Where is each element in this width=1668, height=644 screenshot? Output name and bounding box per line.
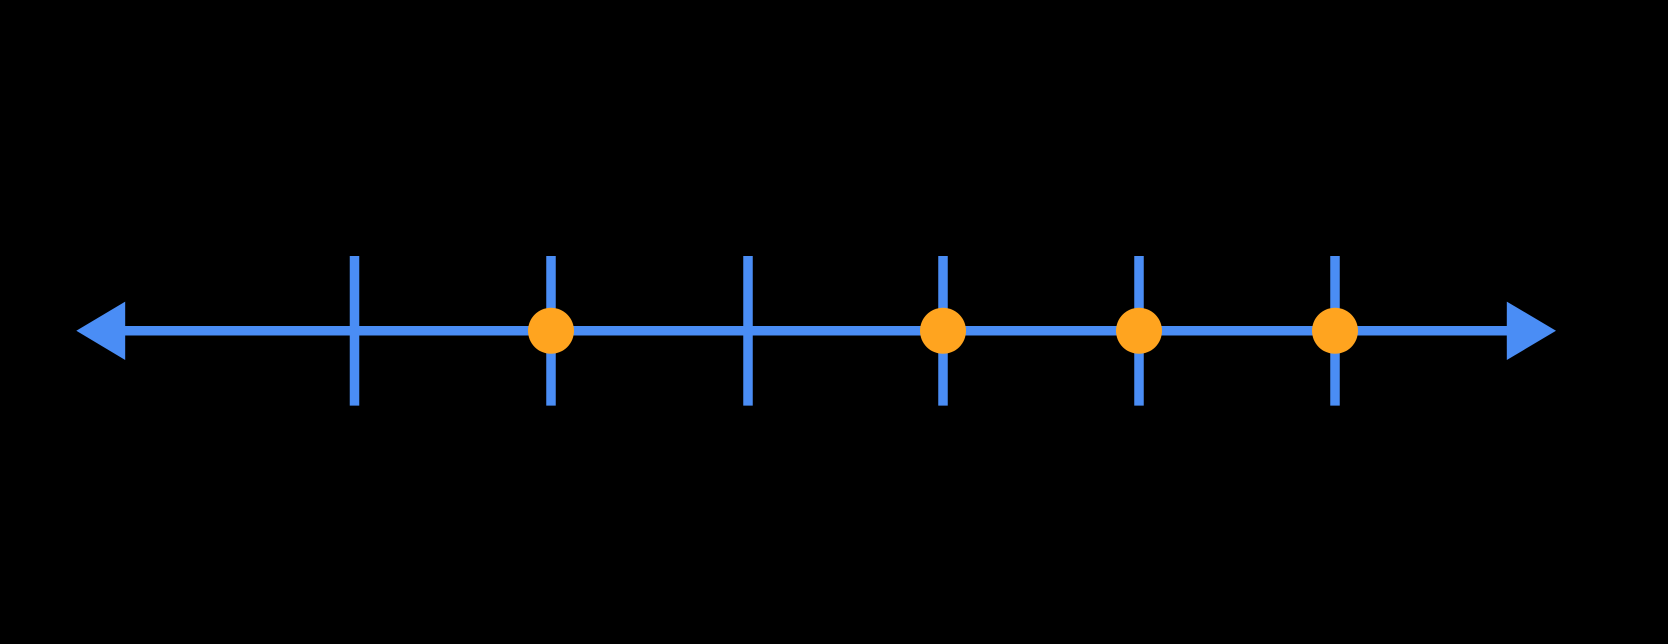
plotted point dot on tick 4 — [920, 308, 966, 354]
left arrowhead — [76, 302, 125, 360]
tick 6 — [1330, 256, 1340, 406]
tick 3 — [743, 256, 753, 406]
tick 5 — [1134, 256, 1144, 406]
plotted point dot on tick 6 — [1312, 308, 1358, 354]
plotted point dot on tick 5 — [1116, 308, 1162, 354]
tick 2 — [546, 256, 556, 406]
tick 1 — [350, 256, 360, 406]
plotted point dot on tick 2 — [528, 308, 574, 354]
number line axis shaft — [118, 326, 1514, 336]
right arrowhead — [1507, 302, 1556, 360]
tick 4 — [938, 256, 948, 406]
